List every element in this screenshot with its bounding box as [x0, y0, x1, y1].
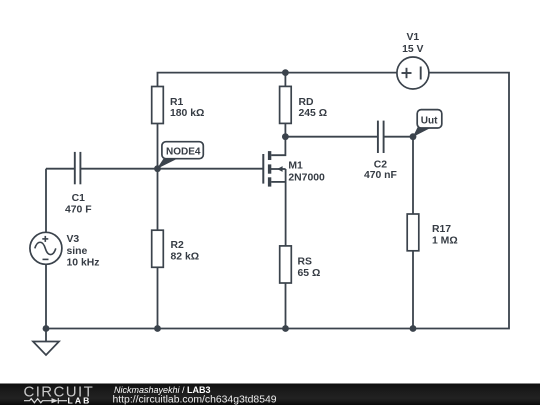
svg-text:V1: V1: [406, 32, 419, 43]
svg-text:65 Ω: 65 Ω: [298, 268, 321, 279]
svg-text:sine: sine: [67, 246, 88, 257]
svg-text:180 kΩ: 180 kΩ: [170, 108, 204, 119]
svg-text:M1: M1: [288, 161, 303, 172]
svg-text:RD: RD: [299, 97, 315, 108]
svg-text:470 nF: 470 nF: [364, 170, 397, 181]
svg-text:470 F: 470 F: [65, 204, 92, 215]
svg-text:V3: V3: [67, 234, 80, 245]
svg-text:82 kΩ: 82 kΩ: [171, 252, 200, 263]
svg-text:R1: R1: [170, 97, 184, 108]
svg-text:10 kHz: 10 kHz: [67, 258, 100, 269]
svg-text:R17: R17: [432, 224, 451, 235]
svg-text:Nickmashayekhi / LAB3: Nickmashayekhi / LAB3: [114, 385, 211, 395]
svg-text:C2: C2: [374, 159, 388, 170]
svg-text:http://circuitlab.com/ch634g3t: http://circuitlab.com/ch634g3td8549: [113, 395, 277, 405]
svg-text:C1: C1: [72, 193, 86, 204]
svg-text:RS: RS: [298, 256, 313, 267]
svg-text:LAB: LAB: [68, 395, 92, 405]
svg-text:NODE4: NODE4: [166, 146, 201, 157]
svg-text:Uut: Uut: [421, 115, 438, 126]
svg-text:1 MΩ: 1 MΩ: [432, 236, 458, 247]
svg-text:R2: R2: [171, 240, 185, 251]
svg-text:2N7000: 2N7000: [288, 172, 325, 183]
svg-text:15 V: 15 V: [402, 44, 423, 55]
svg-text:245 Ω: 245 Ω: [299, 108, 328, 119]
